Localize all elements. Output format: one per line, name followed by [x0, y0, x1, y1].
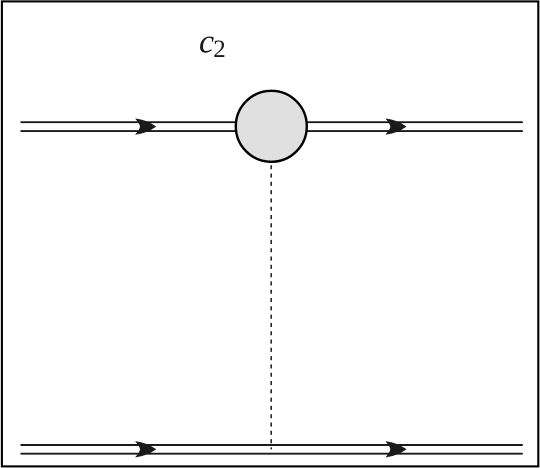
svg-text:2: 2: [213, 36, 226, 63]
svg-text:c: c: [199, 24, 214, 61]
